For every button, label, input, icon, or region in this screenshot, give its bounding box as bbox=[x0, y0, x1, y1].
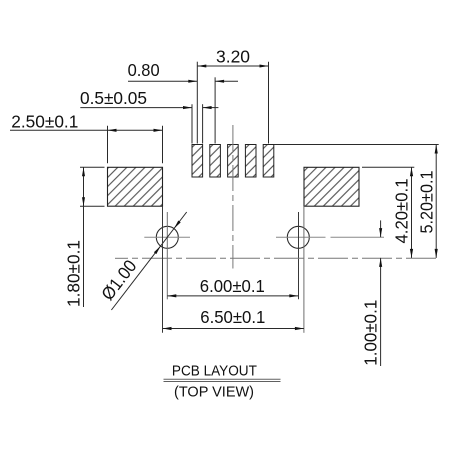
hole H2 crosshair vertical and 6.00 extension bbox=[298, 212, 300, 299]
svg-text:1.00±0.1: 1.00±0.1 bbox=[361, 300, 381, 366]
svg-text:5.20±0.1: 5.20±0.1 bbox=[417, 170, 437, 233]
centerline horizontal dash-dot bbox=[115, 257, 440, 259]
dimension 1.00±0.1 dim lines bbox=[379, 220, 382, 366]
dimension 0.5±0.05 extension and dim lines bbox=[80, 104, 218, 143]
svg-text:PCB LAYOUT: PCB LAYOUT bbox=[172, 364, 257, 380]
dimension 6.00±0.1 dim line bbox=[167, 294, 298, 297]
hole H2 (right mounting hole) bbox=[287, 226, 309, 248]
svg-text:(TOP VIEW): (TOP VIEW) bbox=[174, 384, 254, 400]
svg-text:6.00±0.1: 6.00±0.1 bbox=[200, 276, 265, 296]
dimension 0.80 extension and dim lines bbox=[128, 77, 238, 143]
pin pad 4 bbox=[245, 145, 256, 178]
centerline vertical dash-dot bbox=[232, 125, 234, 269]
dimension 4.20±0.1 extension and dim lines bbox=[362, 167, 414, 258]
svg-text:0.5±0.05: 0.5±0.05 bbox=[80, 88, 147, 108]
pin pad 1 bbox=[192, 145, 203, 178]
svg-text:6.50±0.1: 6.50±0.1 bbox=[200, 307, 265, 327]
svg-text:1.80±0.1: 1.80±0.1 bbox=[64, 240, 84, 307]
dimension 3.20 extension and dim lines bbox=[197, 62, 268, 144]
dimension 2.50±0.1 extension and dim lines bbox=[10, 126, 163, 164]
svg-text:0.80: 0.80 bbox=[128, 60, 160, 80]
dimension 1.80±0.1 extension and dim lines bbox=[80, 167, 105, 307]
svg-text:2.50±0.1: 2.50±0.1 bbox=[11, 112, 78, 132]
svg-text:4.20±0.1: 4.20±0.1 bbox=[391, 178, 411, 243]
hole H2 crosshair horizontal and 1.00 extension bbox=[276, 236, 384, 238]
pad P1 (left hatched SMT pad) bbox=[108, 167, 163, 206]
hole H1 crosshair vertical and 6.00 extension bbox=[166, 212, 168, 299]
dimension Ø1.00 leader line bbox=[111, 212, 186, 310]
title double underline bbox=[164, 379, 281, 381]
hole H1 crosshair horizontal bbox=[144, 236, 190, 238]
hole H1 (left mounting hole) bbox=[156, 226, 178, 248]
pad P2 (right hatched SMT pad) bbox=[304, 167, 359, 206]
dimension 5.20±0.1 extension and dim lines bbox=[274, 145, 439, 258]
pin pad 3 bbox=[228, 145, 239, 178]
dimension 6.50±0.1 extension and dim lines bbox=[163, 206, 304, 333]
pin pad 5 bbox=[263, 145, 274, 178]
svg-text:3.20: 3.20 bbox=[216, 46, 250, 66]
pin pad 2 bbox=[210, 145, 221, 178]
